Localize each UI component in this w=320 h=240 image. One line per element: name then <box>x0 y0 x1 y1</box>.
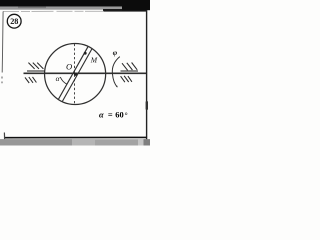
frame right border <box>146 10 148 140</box>
left border bottom tick <box>3 133 5 140</box>
svg-text:α: α <box>56 74 60 83</box>
svg-text:O: O <box>66 62 72 72</box>
problem number badge circle 28 <box>7 14 21 28</box>
svg-text:28: 28 <box>10 17 18 26</box>
frame bottom border <box>4 136 147 138</box>
point M dot <box>84 52 87 55</box>
bottom band dark right corner <box>144 139 151 145</box>
top-right corner black block <box>122 0 150 10</box>
frame left border <box>1 12 4 73</box>
phi arc arrowhead <box>116 85 118 87</box>
right hatching below line <box>121 76 132 82</box>
rod upper-left edge <box>58 46 88 99</box>
frame left border lower part (patchy) <box>1 77 3 84</box>
bottom band darker left segment <box>0 139 72 145</box>
svg-text:M: M <box>90 56 98 65</box>
left hatching above line <box>28 63 43 69</box>
svg-text:φ: φ <box>113 48 118 57</box>
center dot O <box>74 73 77 76</box>
angle alpha arc <box>60 77 67 84</box>
right hatching above line <box>122 63 137 71</box>
ground line (horizontal surface through circle) <box>24 72 147 74</box>
top band lower dark smear left <box>18 7 46 9</box>
bottom gray scan band <box>0 139 150 145</box>
phi rotation arc <box>112 57 119 88</box>
left hatching below line <box>25 77 36 83</box>
top gray scan band <box>0 7 150 10</box>
right border blob <box>146 101 148 110</box>
right hatch baseline <box>121 70 139 72</box>
dashed vertical diameter <box>74 44 76 105</box>
frame top border (faint) <box>3 10 104 12</box>
bottom band pale segment right <box>138 139 144 145</box>
left hatch baseline <box>27 70 45 72</box>
bottom band light segment <box>72 139 95 145</box>
rod lower-right edge <box>62 49 92 102</box>
top black scan band <box>0 0 150 7</box>
top-right darker band segment <box>103 9 147 12</box>
page background <box>0 0 150 150</box>
main circle (circular groove) <box>45 43 106 104</box>
